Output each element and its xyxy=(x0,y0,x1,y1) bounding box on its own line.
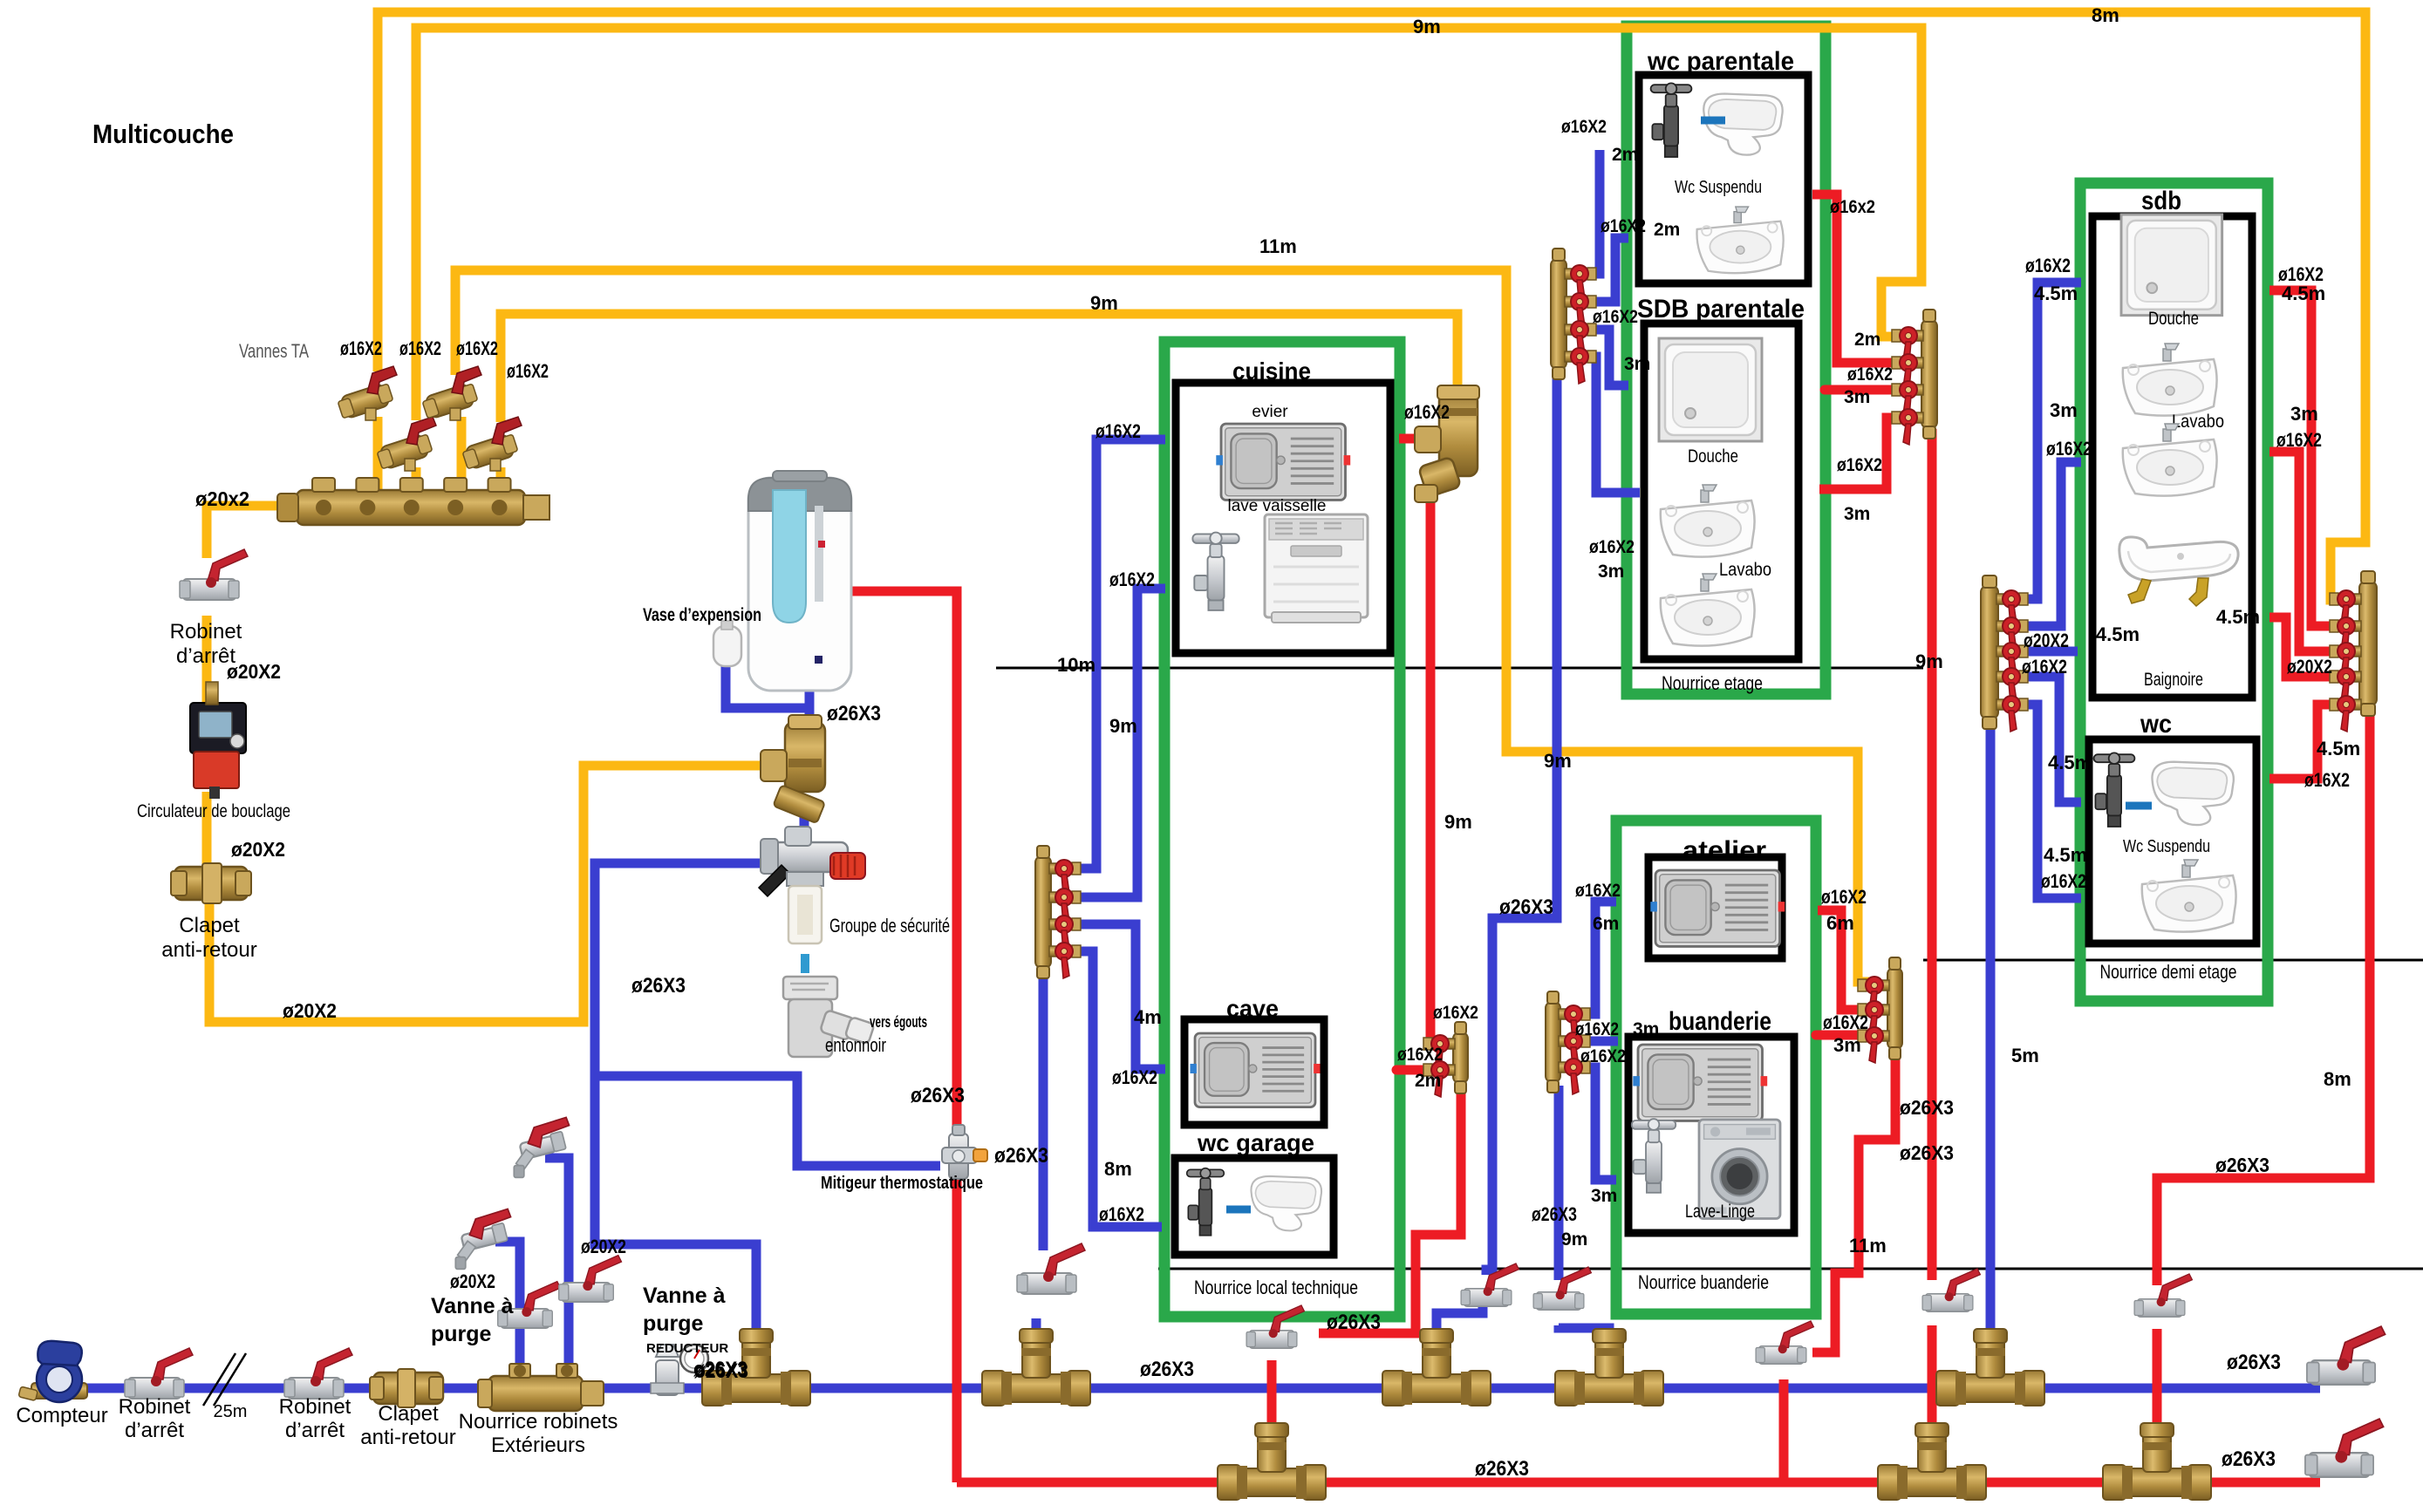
svg-text:ø16X2: ø16X2 xyxy=(1580,1046,1626,1066)
valve on red trunk above TR2 xyxy=(1922,1269,1980,1311)
svg-text:Vanne à: Vanne à xyxy=(431,1294,514,1318)
svg-text:Nourrice demi etage: Nourrice demi etage xyxy=(2100,961,2237,983)
svg-text:2m: 2m xyxy=(1654,220,1680,240)
svg-text:ø16X2: ø16X2 xyxy=(1589,537,1635,557)
wire red SDB parentale lavabo feed 3m xyxy=(1819,418,1901,489)
valve above T5 xyxy=(1533,1267,1591,1310)
washing machine xyxy=(1699,1120,1780,1218)
svg-text:3m: 3m xyxy=(1591,1186,1617,1206)
wire blue heater cold feed: tee to groupe above xyxy=(800,814,809,830)
bathtub sdb xyxy=(2119,537,2238,606)
svg-text:Clapet: Clapet xyxy=(179,914,240,937)
svg-text:Nourrice local technique: Nourrice local technique xyxy=(1194,1277,1358,1298)
wire blue cuisine lave-vaisselle feed 9m xyxy=(1071,589,1165,897)
svg-text:ø26X3: ø26X3 xyxy=(1532,1203,1577,1225)
wire red sdb hot trunk 8m loop to red main xyxy=(2157,708,2370,1427)
manifold nourrice robinets exterieurs xyxy=(478,1364,604,1411)
wire blue o26X3 9m riser T4 to etage cold manifold xyxy=(1437,375,1557,1385)
svg-text:Lavabo: Lavabo xyxy=(2172,412,2224,432)
svg-text:ø26X3: ø26X3 xyxy=(994,1144,1048,1168)
wire blue buanderie manifold feed from T5 xyxy=(1559,1086,1609,1385)
svg-text:9m: 9m xyxy=(1413,16,1441,37)
wire yellow o20x2 from manifold left to clapet/circulateur column xyxy=(207,506,297,558)
floor line Nourrice demi etage xyxy=(1923,959,2423,962)
svg-text:ø16X2: ø16X2 xyxy=(1575,881,1621,901)
valve on red drop at 1458 xyxy=(1246,1305,1304,1348)
fixture box atelier xyxy=(1648,857,1782,958)
svg-text:Nourrice etage: Nourrice etage xyxy=(1662,672,1763,694)
fixture box cuisine xyxy=(1176,383,1390,653)
svg-text:ø26X3: ø26X3 xyxy=(911,1084,965,1107)
wire blue wc suspendu link dash xyxy=(1701,117,1725,125)
valve red main end o26X3 xyxy=(2305,1419,2384,1477)
svg-text:ø26X3: ø26X3 xyxy=(631,974,686,998)
valve blue main end o26X3 xyxy=(2307,1326,2385,1385)
svg-text:2m: 2m xyxy=(1415,1071,1441,1091)
wire red sdb lavabo feed 3m xyxy=(2269,452,2359,651)
svg-text:d’arrêt: d’arrêt xyxy=(125,1419,184,1442)
svg-text:ø16X2: ø16X2 xyxy=(1823,1011,1868,1033)
valve TA 4 xyxy=(462,417,522,471)
svg-text:8m: 8m xyxy=(2092,4,2119,26)
wire blue branch to mitigeur thermostatique xyxy=(595,1076,940,1166)
svg-text:ø16X2: ø16X2 xyxy=(2041,870,2086,892)
outdoor tap left xyxy=(455,1209,510,1269)
fixture box buanderie xyxy=(1628,1037,1794,1233)
wire red atelier evier feed 6m xyxy=(1818,910,1870,1010)
wire blue cuisine evier feed 10m xyxy=(1071,439,1165,868)
svg-text:3m: 3m xyxy=(1633,1019,1659,1039)
svg-text:9m: 9m xyxy=(1090,292,1118,314)
wire red etage hot manifold trunk 9m to red main xyxy=(1928,429,1937,1427)
fixture box wc parentale xyxy=(1639,75,1808,283)
funnel entonnoir vers egouts xyxy=(783,977,875,1057)
svg-text:ø26X3: ø26X3 xyxy=(1900,1141,1954,1164)
wire red sdb baignoire feed 4.5m xyxy=(2269,617,2359,677)
svg-text:anti-retour: anti-retour xyxy=(161,938,256,962)
svg-text:ø26X3: ø26X3 xyxy=(827,702,881,725)
svg-text:11m: 11m xyxy=(1259,235,1297,257)
svg-text:ø16X2: ø16X2 xyxy=(1601,216,1646,236)
tee TR3 red main (sdb loop) xyxy=(2103,1423,2211,1500)
svg-text:Circulateur de bouclage: Circulateur de bouclage xyxy=(137,801,290,821)
svg-text:8m: 8m xyxy=(1104,1158,1132,1180)
wire yellow o20X2 robinet to circulateur xyxy=(202,616,212,703)
svg-text:3m: 3m xyxy=(1624,354,1650,374)
svg-text:ø16X2: ø16X2 xyxy=(1821,886,1867,908)
mitigeur thermostatique xyxy=(942,1125,987,1179)
svg-text:sdb: sdb xyxy=(2141,187,2181,215)
svg-text:2m: 2m xyxy=(1854,330,1880,350)
wire blue main line o26X3 from compteur to end valve xyxy=(84,1384,2320,1393)
wire red SDB parentale douche stub 3m xyxy=(1825,385,1901,395)
svg-text:Nourrice robinets: Nourrice robinets xyxy=(459,1410,618,1434)
svg-text:ø26X3: ø26X3 xyxy=(1140,1358,1194,1381)
svg-text:wc: wc xyxy=(2140,710,2172,739)
svg-text:ø20X2: ø20X2 xyxy=(283,999,337,1022)
svg-text:Mitigeur thermostatique: Mitigeur thermostatique xyxy=(821,1174,983,1193)
valve vanne a purge left xyxy=(498,1282,561,1328)
svg-text:REDUCTEUR: REDUCTEUR xyxy=(646,1341,728,1356)
svg-text:ø26X3: ø26X3 xyxy=(2215,1154,2269,1176)
tee T2 blue main (to local technique manifold) xyxy=(982,1329,1090,1406)
svg-text:3m: 3m xyxy=(1833,1034,1861,1056)
svg-text:ø16X2: ø16X2 xyxy=(2304,769,2350,791)
svg-text:3m: 3m xyxy=(2050,399,2078,421)
check valve clapet anti-retour (bouclage) xyxy=(171,863,251,903)
valve TA 1 xyxy=(338,366,397,420)
svg-text:ø16X2: ø16X2 xyxy=(456,337,498,359)
room box Nourrice etage (wc parentale / SDB parentale) xyxy=(1627,26,1826,694)
svg-text:4.5m: 4.5m xyxy=(2317,738,2360,759)
wire blue etage manifold V1 riser to wc suspendu tap xyxy=(1587,150,1600,274)
wire yellow o20X2 circulateur to clapet xyxy=(202,792,212,865)
svg-text:ø16X2: ø16X2 xyxy=(2046,438,2092,460)
wc garage toilet xyxy=(1251,1176,1321,1230)
valve on red drop at 2045 xyxy=(1756,1321,1813,1364)
floor line Nourrice local technique / buanderie xyxy=(1158,1268,2423,1270)
svg-text:4.5m: 4.5m xyxy=(2096,623,2140,645)
svg-text:Compteur: Compteur xyxy=(16,1404,107,1427)
svg-text:9m: 9m xyxy=(1915,650,1943,672)
svg-text:2m: 2m xyxy=(1612,145,1638,165)
manifold buanderie cold (3 valves) xyxy=(1546,991,1560,1093)
svg-text:ø16X2: ø16X2 xyxy=(1561,117,1607,137)
svg-text:10m: 10m xyxy=(1057,654,1095,676)
svg-text:purge: purge xyxy=(643,1311,704,1336)
svg-text:Lave-Linge: Lave-Linge xyxy=(1685,1202,1755,1222)
svg-text:Lavabo: Lavabo xyxy=(1719,560,1771,580)
svg-text:Multicouche: Multicouche xyxy=(92,119,234,149)
svg-text:ø20x2: ø20x2 xyxy=(195,487,249,510)
svg-text:4.5m: 4.5m xyxy=(2034,283,2078,304)
wire red main line o26X3 bottom xyxy=(957,1478,2320,1488)
svg-text:cave: cave xyxy=(1226,995,1279,1022)
svg-text:4.5m: 4.5m xyxy=(2044,844,2087,866)
svg-text:11m: 11m xyxy=(1849,1235,1887,1257)
svg-text:ø26X3: ø26X3 xyxy=(1327,1311,1381,1334)
svg-text:ø20X2: ø20X2 xyxy=(2024,630,2069,651)
wire blue lave-linge tap feed 3m xyxy=(1580,1067,1616,1180)
svg-text:atelier: atelier xyxy=(1682,836,1766,865)
svg-text:ø16X2: ø16X2 xyxy=(2025,255,2071,276)
tee hot cuisine (yellow junction) xyxy=(1415,385,1479,502)
svg-text:Wc Suspendu: Wc Suspendu xyxy=(2123,837,2210,856)
toilet wc parentale xyxy=(1703,94,1782,155)
wire red 9m drop cuisine tee to atelier manifold xyxy=(1430,488,1435,1044)
svg-text:Vanne à: Vanne à xyxy=(643,1284,726,1308)
svg-text:Clapet: Clapet xyxy=(378,1402,439,1426)
wire blue wc suspendu dash (demi etage) xyxy=(2126,802,2152,810)
lavabo 1 sdb xyxy=(2123,344,2217,416)
wire yellow loop 9m (valve TA2 to etage hot manifold) xyxy=(416,28,1921,420)
shower tray sdb xyxy=(2121,215,2222,316)
svg-text:Robinet: Robinet xyxy=(119,1395,191,1419)
svg-text:SDB parentale: SDB parentale xyxy=(1637,295,1805,324)
svg-text:Wc Suspendu: Wc Suspendu xyxy=(1675,178,1762,197)
manifold local technique cold (4 valves) xyxy=(1035,846,1051,978)
svg-text:ø16X2: ø16X2 xyxy=(1837,455,1882,475)
svg-text:Vase d’expension: Vase d’expension xyxy=(643,605,761,625)
wire red buanderie hot manifold 11m drop to red main xyxy=(1784,1049,1895,1482)
svg-text:ø26X3: ø26X3 xyxy=(2227,1351,2281,1374)
svg-text:3m: 3m xyxy=(1844,504,1870,524)
wire yellow loop 8m (valve TA1 to sdb hot manifold) xyxy=(378,12,2365,600)
wire red sdb wc lavabo feed 4.5m xyxy=(2269,705,2359,779)
tee T5 blue main (to buanderie manifold) xyxy=(1555,1329,1663,1406)
svg-text:ø16X2: ø16X2 xyxy=(1397,1045,1443,1065)
svg-text:Douche: Douche xyxy=(2148,309,2199,329)
svg-text:buanderie: buanderie xyxy=(1669,1007,1771,1036)
svg-text:9m: 9m xyxy=(1561,1229,1587,1250)
svg-text:9m: 9m xyxy=(1109,715,1137,737)
svg-text:cuisine: cuisine xyxy=(1232,358,1311,385)
wire blue etage lavabo feed 2m xyxy=(1587,238,1628,302)
lavabo 2 SDB parentale xyxy=(1661,574,1755,646)
svg-text:ø20X2: ø20X2 xyxy=(2287,656,2332,678)
wire red etage wc parentale lavabo feed 2m xyxy=(1812,194,1901,363)
svg-text:Nourrice buanderie: Nourrice buanderie xyxy=(1638,1271,1769,1293)
svg-text:ø16X2: ø16X2 xyxy=(1095,420,1141,442)
svg-text:ø20X2: ø20X2 xyxy=(450,1270,495,1292)
tee TR2 red main (etage trunk) xyxy=(1878,1423,1986,1500)
wire blue cave feed 4m xyxy=(1071,924,1165,1069)
svg-text:anti-retour: anti-retour xyxy=(360,1426,455,1449)
svg-text:ø26X3: ø26X3 xyxy=(2222,1447,2276,1471)
tap wc parentale xyxy=(1651,83,1692,157)
svg-text:Robinet: Robinet xyxy=(170,620,242,644)
svg-text:ø16X2: ø16X2 xyxy=(2022,656,2067,678)
manifold etage cold (4 valves) xyxy=(1551,249,1566,379)
svg-text:ø16X2: ø16X2 xyxy=(507,360,549,382)
tap cuisine lave vaisselle xyxy=(1192,533,1239,610)
expansion vessel vase d expension xyxy=(713,621,741,666)
svg-text:25m: 25m xyxy=(214,1402,248,1421)
wire blue sdb douche feed 4.5m xyxy=(2019,283,2081,599)
svg-text:ø16X2: ø16X2 xyxy=(1433,1003,1478,1023)
svg-text:ø26X3: ø26X3 xyxy=(1900,1096,1954,1119)
svg-text:Groupe de sécurité: Groupe de sécurité xyxy=(829,915,950,936)
svg-text:Robinet: Robinet xyxy=(279,1395,352,1419)
manifold etage hot (4 valves) xyxy=(1921,310,1937,439)
wire blue T6 riser 5m to sdb cold manifold xyxy=(1986,722,1996,1385)
lavabo wc demi etage xyxy=(2142,860,2236,932)
svg-text:vers égouts: vers égouts xyxy=(870,1013,927,1031)
floor line Nourrice etage xyxy=(996,667,1923,670)
svg-text:3m: 3m xyxy=(1844,387,1870,407)
valve robinet d arret 1 xyxy=(125,1348,193,1399)
svg-text:6m: 6m xyxy=(1593,914,1619,934)
svg-text:ø16X2: ø16X2 xyxy=(1847,364,1893,385)
wire blue atelier evier feed 6m xyxy=(1580,902,1616,1014)
svg-text:wc garage: wc garage xyxy=(1197,1129,1314,1156)
lavabo wc parentale xyxy=(1696,207,1783,273)
svg-text:ø20X2: ø20X2 xyxy=(581,1236,626,1257)
water heater (ballon thermodynamique) xyxy=(748,471,851,691)
room box Nourrice buanderie (atelier / buanderie) xyxy=(1616,821,1816,1314)
svg-text:3m: 3m xyxy=(2290,403,2318,425)
fixture box wc garage xyxy=(1175,1158,1334,1255)
wire blue riser purge valve left xyxy=(495,1242,520,1378)
svg-text:9m: 9m xyxy=(1544,750,1572,772)
valve vanne a purge right xyxy=(559,1256,622,1302)
brass tee under heater (yellow/cold junction) xyxy=(761,715,825,823)
wire blue T2 riser to local technique manifold xyxy=(1036,966,1043,1385)
tee TR1 red main (from atelier drop) xyxy=(1218,1423,1326,1500)
svg-text:ø16X2: ø16X2 xyxy=(340,337,382,359)
svg-text:d’arrêt: d’arrêt xyxy=(285,1419,345,1442)
svg-text:9m: 9m xyxy=(1444,811,1472,833)
svg-text:ø26X3: ø26X3 xyxy=(1499,896,1553,919)
manifold buanderie hot (3 valves) xyxy=(1887,957,1902,1059)
svg-text:ø16X2: ø16X2 xyxy=(1575,1019,1619,1039)
wire blue T1 riser to groupe de securite xyxy=(595,863,763,1385)
wire red heater outlet down to red main xyxy=(844,591,957,1482)
svg-text:4.5m: 4.5m xyxy=(2216,606,2260,628)
break marks 25m xyxy=(203,1353,246,1406)
svg-text:4.5m: 4.5m xyxy=(2282,283,2325,304)
toilet wc demi etage xyxy=(2152,762,2233,825)
tee T4 blue main (to etage riser) xyxy=(1382,1329,1491,1406)
groupe de securite xyxy=(759,827,865,943)
svg-text:ø16X2: ø16X2 xyxy=(1109,569,1155,590)
tap wc demi etage xyxy=(2094,753,2135,827)
valve above T4 xyxy=(1461,1263,1519,1306)
svg-text:purge: purge xyxy=(431,1322,492,1346)
svg-text:ø16X2: ø16X2 xyxy=(1112,1066,1157,1088)
shower tray SDB parentale xyxy=(1659,338,1762,441)
wire blue vase expansion link xyxy=(726,664,809,708)
svg-text:5m: 5m xyxy=(2011,1045,2039,1066)
svg-text:ø26X3: ø26X3 xyxy=(693,1358,747,1381)
fixture box cave xyxy=(1184,1019,1324,1125)
svg-text:lave vaisselle: lave vaisselle xyxy=(1228,497,1327,515)
pump circulateur de bouclage xyxy=(190,682,246,799)
water meter compteur xyxy=(18,1341,87,1402)
wire yellow loop 9m (valve TA4 to cuisine hot tee) xyxy=(501,314,1457,422)
wire yellow loop 11m (valve TA3 to buanderie hot manifold) xyxy=(455,270,1870,982)
valve on red drop above TR3 xyxy=(2134,1274,2192,1317)
valve robinet d arret 2 xyxy=(284,1348,352,1399)
svg-text:Vannes TA: Vannes TA xyxy=(239,340,309,362)
wire blue heater inlet above tee xyxy=(805,689,815,724)
manifold sdb cold (5 valves) xyxy=(1981,576,1998,729)
svg-text:ø20X2: ø20X2 xyxy=(231,838,285,861)
tap buanderie lave linge xyxy=(1632,1119,1676,1193)
tee T1 blue main (to groupe securite) xyxy=(702,1329,810,1406)
valve TA 3 xyxy=(422,366,481,420)
manifold sdb hot (5 valves) xyxy=(2359,571,2377,716)
svg-text:wc parentale: wc parentale xyxy=(1647,47,1794,76)
svg-text:ø20X2: ø20X2 xyxy=(227,660,281,683)
wire red cuisine feed from hot tee xyxy=(1399,434,1439,444)
svg-text:ø16X2: ø16X2 xyxy=(1593,307,1638,327)
svg-text:8m: 8m xyxy=(2324,1068,2351,1090)
wire blue SDB parentale douche feed 3m xyxy=(1587,330,1628,385)
wire red atelier manifold bottom to red main via valve xyxy=(1272,1083,1461,1427)
svg-text:evier: evier xyxy=(1252,403,1288,421)
svg-text:ø26X3: ø26X3 xyxy=(1475,1457,1529,1481)
wire blue sdb wc lavabo feed 4.5m xyxy=(2019,705,2081,898)
manifold atelier-cave hot (2 valves) xyxy=(1453,1022,1468,1093)
valve above T2 xyxy=(1017,1243,1085,1294)
svg-text:ø16X2: ø16X2 xyxy=(1404,401,1450,423)
room box Nourrice local technique (cuisine/cave/wc garage) xyxy=(1164,342,1400,1317)
pressure reducer REDUCTEUR xyxy=(651,1345,708,1395)
dishwasher xyxy=(1265,514,1368,623)
svg-text:entonnoir: entonnoir xyxy=(825,1034,886,1056)
valve robinet d arret (bouclage) xyxy=(180,549,248,600)
svg-text:Extérieurs: Extérieurs xyxy=(491,1434,585,1457)
wire blue dash groupe securite to entonnoir xyxy=(801,954,809,973)
svg-text:ø16X2: ø16X2 xyxy=(2276,429,2322,451)
wire blue sdb wc tap feed 4.5m xyxy=(2019,677,2081,802)
wire blue riser purge valve right xyxy=(545,1158,569,1378)
tee T6 blue main (to sdb manifold 5m) xyxy=(1936,1329,2044,1406)
wire blue SDB parentale lavabo feed 3m xyxy=(1587,357,1640,493)
svg-text:6m: 6m xyxy=(1826,912,1854,934)
room box Nourrice demi etage (sdb / wc) xyxy=(2080,183,2268,1001)
svg-text:Baignoire: Baignoire xyxy=(2144,670,2203,690)
tap wc garage xyxy=(1187,1168,1225,1236)
svg-text:ø16x2: ø16x2 xyxy=(1830,197,1875,217)
lavabo 2 sdb xyxy=(2123,424,2217,496)
wire red sdb douche feed 4.5m xyxy=(2269,290,2359,626)
outdoor tap right xyxy=(514,1117,569,1177)
manifold nourrice bouclage (5 ports) xyxy=(277,478,549,525)
check valve clapet anti-retour (main) xyxy=(370,1369,443,1407)
wire yellow o20X2 bottom return to water heater tee xyxy=(209,766,768,1022)
svg-text:ø16X2: ø16X2 xyxy=(399,337,441,359)
valve TA 2 xyxy=(377,417,436,471)
wire blue buanderie evier feed 3m xyxy=(1580,1037,1618,1046)
wire blue sdb o20X2 baignoire stub xyxy=(2019,647,2078,657)
wire yellow stubs under vannes TA xyxy=(378,417,501,490)
wire blue sdb lavabo feed 3m xyxy=(2019,462,2081,626)
svg-text:3m: 3m xyxy=(1598,562,1624,582)
svg-text:4.5m: 4.5m xyxy=(2048,752,2092,773)
svg-text:ø16X2: ø16X2 xyxy=(1099,1203,1144,1225)
wire red cave stub o16X2 2m xyxy=(1396,1066,1435,1075)
wire blue wc garage feed 8m xyxy=(1071,951,1162,1227)
svg-text:4m: 4m xyxy=(1134,1006,1162,1028)
svg-text:Douche: Douche xyxy=(1688,446,1738,467)
lavabo 1 SDB parentale xyxy=(1661,485,1755,557)
wire red buanderie evier stub 3m xyxy=(1816,1031,1870,1040)
